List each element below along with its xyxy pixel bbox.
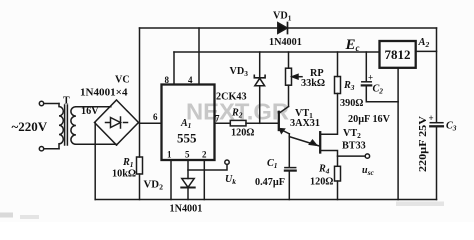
svg-text:1: 1	[167, 150, 172, 160]
svg-text:VC: VC	[115, 75, 130, 86]
wire: R2 to VT1 base	[246, 122, 279, 124]
svg-text:R3: R3	[343, 80, 355, 92]
svg-text:20µF 16V: 20µF 16V	[348, 114, 391, 125]
svg-text:VD3: VD3	[230, 66, 249, 78]
node: Uk terminal	[225, 160, 229, 164]
transformer T secondary winding	[71, 107, 76, 145]
svg-text:120Ω: 120Ω	[231, 128, 254, 139]
svg-text:8: 8	[165, 75, 170, 85]
watermark smudge bottom-right	[396, 202, 444, 207]
svg-text:+: +	[429, 113, 434, 123]
svg-text:33kΩ: 33kΩ	[301, 78, 325, 89]
node: usc terminal	[365, 154, 369, 158]
svg-text:~220V: ~220V	[12, 119, 48, 134]
wire: VD3 branch from rail2	[259, 52, 261, 77]
svg-text:C2: C2	[373, 84, 384, 96]
svg-text:3AX31: 3AX31	[290, 118, 320, 129]
svg-text:R1: R1	[122, 157, 134, 169]
wire: right vertical top	[436, 28, 438, 122]
svg-text:usc: usc	[362, 165, 374, 177]
svg-text:2CK43: 2CK43	[216, 92, 247, 103]
wire: pin 4 stub from top rail	[198, 28, 200, 85]
wire: secondary bottom to bridge	[76, 143, 117, 146]
svg-text:16V: 16V	[81, 106, 99, 117]
zener diode VD3	[254, 75, 265, 78]
svg-text:C1: C1	[267, 158, 278, 170]
wire: pin 8 stub	[173, 52, 175, 85]
svg-text:555: 555	[177, 130, 197, 145]
regulator 7812 box	[380, 41, 416, 68]
svg-text:+: +	[368, 73, 373, 83]
transformer T primary winding	[59, 104, 63, 149]
555 timer A1 box	[162, 85, 215, 161]
svg-text:10kΩ: 10kΩ	[112, 169, 136, 180]
svg-text:BT33: BT33	[342, 141, 366, 152]
wire: 7812 output	[416, 50, 437, 52]
wire: 7812 ground pin	[397, 68, 399, 200]
capacitor C3	[430, 122, 443, 124]
transistor VT2 bar	[319, 132, 321, 152]
transformer T core	[65, 105, 68, 145]
wire: VT1 emitter down to C1	[288, 134, 290, 167]
svg-text:A2: A2	[418, 37, 430, 49]
wire: ground rail	[95, 199, 436, 201]
resistor R1	[137, 157, 143, 174]
wire: VT2 base1 to R4	[320, 151, 337, 167]
RP wiper arrow	[296, 76, 302, 78]
svg-text:120Ω: 120Ω	[310, 177, 333, 188]
svg-text:VD1: VD1	[273, 11, 292, 23]
svg-text:7812: 7812	[385, 47, 411, 62]
svg-text:VD2: VD2	[144, 179, 164, 192]
wire: R1 to ground rail	[139, 174, 141, 200]
potentiometer RP branch	[288, 52, 290, 68]
wire: Uk branch	[188, 164, 227, 170]
svg-text:C3: C3	[446, 121, 457, 133]
svg-text:1N4001×4: 1N4001×4	[80, 88, 128, 99]
svg-text:1N4001: 1N4001	[170, 204, 203, 215]
wire: C2 bottom to gnd pin	[366, 86, 398, 102]
diode VD1	[278, 23, 287, 34]
wire: right vertical bottom	[436, 127, 438, 200]
wire: node to 555 pin6	[140, 122, 162, 124]
svg-text:1N4001: 1N4001	[269, 37, 302, 48]
transistor VT1 collector lead	[279, 107, 288, 114]
wire: VT2 base2 to R3	[320, 94, 337, 135]
diode VD2	[182, 179, 194, 188]
svg-text:Uk: Uk	[225, 174, 236, 186]
svg-text:R4: R4	[318, 164, 330, 176]
wire: top rail	[140, 27, 437, 29]
svg-text:5: 5	[185, 150, 190, 160]
bridge internal diode	[106, 122, 128, 124]
svg-text:Ec: Ec	[345, 37, 360, 53]
resistor R3	[335, 77, 341, 94]
svg-text:T: T	[63, 96, 70, 107]
node: AC input terminal bottom	[39, 147, 43, 151]
svg-text:4: 4	[188, 75, 193, 85]
wire: C1 to ground rail	[288, 171, 290, 200]
transistor VT1 base bar	[278, 112, 280, 130]
svg-text:VT2: VT2	[343, 128, 361, 140]
bridge rectifier VC diamond	[95, 100, 139, 145]
capacitor C1	[285, 167, 296, 169]
wire: secondary top to bridge	[76, 106, 111, 108]
wire: pin2 stub to ground	[203, 160, 205, 200]
UJT emitter arrowhead	[310, 140, 317, 145]
transistor VT1 emitter lead with arrow	[280, 129, 289, 134]
wire: VD2 to ground rail	[187, 188, 189, 200]
wire: pin1 stub to ground	[170, 160, 172, 200]
wire: RP to VT1 collector	[288, 85, 290, 106]
wire: R4 to ground rail	[337, 181, 339, 200]
watermark smudge bottom-left	[0, 213, 13, 218]
wire: pin5 stub	[187, 160, 189, 179]
wire: UJT emitter lead	[289, 137, 319, 146]
wire: top terminal to primary	[44, 103, 59, 105]
resistor R2	[230, 120, 246, 126]
potentiometer RP box	[286, 68, 292, 85]
node: AC input terminal top	[39, 101, 43, 105]
svg-text:6: 6	[153, 112, 158, 122]
svg-text:0.47µF: 0.47µF	[255, 177, 285, 188]
capacitor C2	[362, 81, 371, 83]
svg-text:220µF 25V: 220µF 25V	[418, 115, 429, 172]
svg-text:7: 7	[215, 114, 220, 124]
wire: rail2 supply bus	[174, 51, 380, 53]
wire: bridge right vertex / rectifier + vertical	[139, 28, 141, 157]
wire: VD3 to pin7 wire	[259, 86, 261, 123]
resistor R4	[335, 166, 341, 181]
svg-text:2: 2	[202, 150, 207, 160]
wire: bottom terminal to primary	[44, 148, 59, 150]
wire: R3 to rail2	[337, 52, 339, 77]
wire: usc tap	[338, 155, 366, 157]
svg-text:390Ω: 390Ω	[340, 98, 363, 109]
wire: pin7 to R2	[215, 122, 231, 124]
wire: C2 branch from rail2	[365, 52, 367, 82]
wire: bridge left vertex down to ground rail	[94, 123, 96, 200]
